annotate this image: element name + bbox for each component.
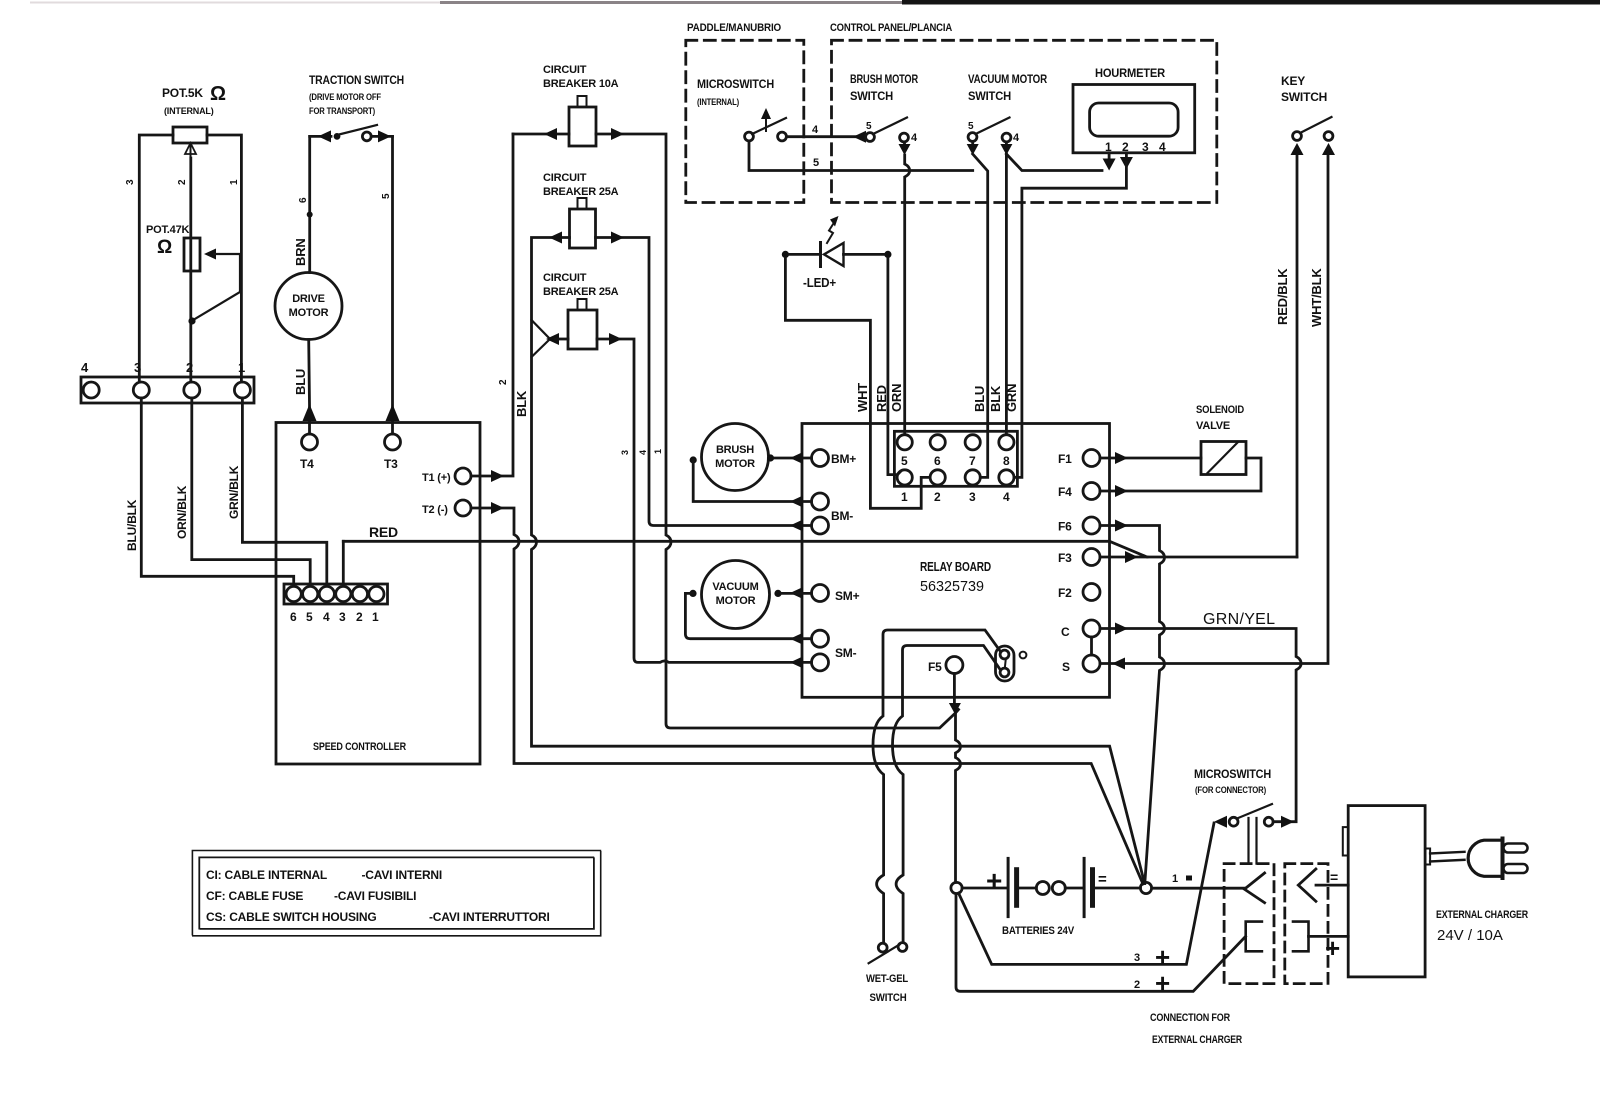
svg-text:MICROSWITCH: MICROSWITCH: [1194, 767, 1271, 781]
microswitch (internal) label: [697, 77, 774, 107]
wire CB10A right: [596, 134, 959, 728]
svg-text:PADDLE/MANUBRIO: PADDLE/MANUBRIO: [687, 22, 782, 34]
svg-text:-CAVI INTERRUTTORI: -CAVI INTERRUTTORI: [429, 910, 550, 924]
svg-text:CIRCUIT: CIRCUIT: [543, 64, 587, 76]
wire CB25A-1 left down to rail H1: [532, 238, 1145, 884]
circuit breaker 25A (upper) label: [543, 172, 619, 198]
svg-text:BRUSH MOTOR: BRUSH MOTOR: [850, 72, 918, 86]
svg-text:KEY: KEY: [1281, 74, 1305, 88]
svg-text:WHT: WHT: [855, 383, 870, 412]
traction switch labels: [309, 73, 404, 116]
svg-text:BREAKER 25A: BREAKER 25A: [543, 286, 619, 298]
circuit breaker 25A upper body: [570, 209, 596, 248]
relay pin F2: [1083, 584, 1100, 601]
svg-text:-CAVI FUSIBILI: -CAVI FUSIBILI: [334, 889, 416, 903]
potentiometer POT.47K body: [184, 238, 200, 271]
svg-text:BLK: BLK: [988, 385, 1003, 412]
svg-text:CIRCUIT: CIRCUIT: [543, 172, 587, 184]
svg-text:-LED+: -LED+: [803, 275, 837, 290]
svg-text:SOLENOID: SOLENOID: [1196, 404, 1244, 416]
svg-text:T2 (-): T2 (-): [422, 504, 448, 516]
svg-text:MOTOR: MOTOR: [289, 307, 329, 319]
svg-text:1: 1: [238, 360, 245, 375]
svg-text:EXTERNAL CHARGER: EXTERNAL CHARGER: [1152, 1034, 1242, 1046]
svg-text:POT.47K: POT.47K: [146, 224, 189, 236]
microswitch internal contacts: [745, 132, 754, 141]
scan artifact: top edge broken line: [30, 0, 1600, 5]
hourmeter label: [1095, 66, 1165, 80]
svg-text:CIRCUIT: CIRCUIT: [543, 272, 587, 284]
wire vacuum sw contact5 down to BLU: [971, 142, 974, 148]
charger minus wire: [1316, 884, 1348, 887]
relay jumper connector: [996, 646, 1015, 681]
vacuum motor: [702, 561, 770, 629]
svg-text:BATTERIES 24V: BATTERIES 24V: [1002, 925, 1075, 937]
svg-text:BLK: BLK: [514, 390, 529, 417]
svg-text:CONTROL PANEL/PLANCIA: CONTROL PANEL/PLANCIA: [830, 22, 952, 34]
circuit breaker 25A lower body: [568, 310, 597, 349]
svg-text:BLU: BLU: [293, 369, 308, 395]
svg-text:(INTERNAL): (INTERNAL): [697, 97, 739, 107]
wire F1 to solenoid valve: [1100, 457, 1201, 460]
relay pin F1: [1083, 450, 1100, 467]
arrow up into T3: [386, 404, 400, 421]
svg-text:SPEED CONTROLLER: SPEED CONTROLLER: [313, 741, 406, 753]
potentiometer POT.5K label: [162, 83, 226, 116]
dashed box paddle: [686, 40, 804, 202]
brush motor: [702, 424, 769, 491]
wire T1 to breaker 10A: [471, 134, 513, 476]
pot47 wiper arrow: [204, 249, 216, 260]
svg-text:CS: CABLE SWITCH HOUSING: CS: CABLE SWITCH HOUSING: [206, 910, 377, 924]
relay pin F5: [928, 660, 942, 674]
terminal T3: [385, 434, 401, 450]
label PADDLE/MANUBRIO: [687, 22, 782, 34]
link C-S: [1090, 637, 1093, 655]
relay pins SM-: [812, 630, 829, 647]
svg-text:CONNECTION FOR: CONNECTION FOR: [1150, 1012, 1230, 1024]
svg-text:(DRIVE MOTOR OFF: (DRIVE MOTOR OFF: [309, 92, 382, 102]
svg-text:MOTOR: MOTOR: [716, 595, 756, 607]
svg-text:CF: CABLE FUSE: CF: CABLE FUSE: [206, 889, 303, 903]
wire solenoid return to F4: [1100, 458, 1261, 491]
svg-text:2: 2: [186, 360, 193, 375]
batteries 24V: [951, 882, 962, 893]
svg-text:BM-: BM-: [831, 509, 853, 523]
svg-text:1: 1: [1172, 873, 1178, 885]
svg-text:4: 4: [323, 610, 330, 624]
svg-text:5: 5: [968, 121, 974, 132]
svg-text:56325739: 56325739: [920, 579, 984, 595]
speed controller box: [276, 423, 480, 765]
svg-text:8: 8: [1003, 454, 1010, 468]
terminal T4: [302, 434, 318, 450]
wire LED anode to relay pin1 (RED): [888, 258, 900, 475]
svg-text:T4: T4: [300, 457, 314, 471]
label RED: [369, 524, 398, 540]
LED lightning arrow: [827, 220, 836, 244]
connector pin arrows: [1244, 873, 1264, 903]
wire pot left leg: [139, 135, 173, 382]
connector dashed housing 2: [1285, 864, 1328, 984]
svg-text:RED: RED: [874, 385, 889, 412]
svg-text:1: 1: [229, 179, 240, 185]
svg-text:GRN: GRN: [1004, 384, 1019, 412]
charger plus wire: [1309, 935, 1349, 938]
drive motor M1: [275, 273, 342, 340]
wire hourmeter pin2 to GRN: [1125, 153, 1128, 158]
svg-text:S: S: [1062, 660, 1070, 674]
wire S to key switch WHT/BLK: [1100, 149, 1328, 664]
mechanical link lines: [1249, 818, 1257, 864]
wire brush motor to BM+: [771, 457, 812, 460]
svg-text:4: 4: [1159, 140, 1166, 154]
svg-text:SM+: SM+: [835, 589, 860, 603]
labels 6 5 4 3 2 1: [290, 610, 379, 624]
svg-text:C: C: [1061, 625, 1070, 639]
svg-text:6: 6: [934, 454, 941, 468]
svg-text:24V / 10A: 24V / 10A: [1437, 927, 1503, 944]
terminal T1(+): [455, 468, 471, 484]
relay pin F4: [1083, 483, 1100, 500]
svg-text:4: 4: [638, 450, 648, 455]
svg-text:6: 6: [298, 197, 309, 203]
svg-text:(INTERNAL): (INTERNAL): [164, 106, 214, 116]
connection for external charger labels: [1150, 1012, 1242, 1046]
wire traction left leg (BRN): [308, 136, 311, 272]
wire battery left to line 2: [956, 894, 1246, 992]
circuit breaker 10A label: [543, 64, 619, 90]
svg-text:FOR TRANSPORT): FOR TRANSPORT): [309, 106, 375, 116]
wire key switch WHT/BLK arrow: [1322, 143, 1335, 155]
wire BLU/BLK pin3 to speed controller pin6: [141, 398, 293, 585]
relay pin F3: [1083, 549, 1100, 566]
label +: [986, 865, 1002, 896]
svg-text:Ω: Ω: [157, 237, 172, 258]
svg-text:BLU/BLK: BLU/BLK: [125, 499, 139, 551]
svg-text:6: 6: [290, 610, 297, 624]
wire GRN/BLK pin1 to speed controller pin4: [242, 398, 326, 585]
svg-text:HOURMETER: HOURMETER: [1095, 66, 1165, 80]
svg-text:2: 2: [177, 179, 188, 185]
key switch: [1293, 132, 1302, 141]
svg-text:3: 3: [1142, 140, 1149, 154]
svg-text:SWITCH: SWITCH: [968, 89, 1011, 103]
wire pot wiper down: [189, 158, 192, 382]
svg-text:RED/BLK: RED/BLK: [1275, 268, 1290, 325]
labels 3 + and 2 +: [1134, 942, 1170, 998]
svg-text:RELAY BOARD: RELAY BOARD: [920, 559, 991, 574]
svg-text:5: 5: [866, 121, 872, 132]
wire pot right leg: [207, 135, 241, 382]
svg-text:5: 5: [306, 610, 313, 624]
hourmeter body: [1073, 85, 1195, 153]
arrow up into T4: [303, 404, 317, 421]
charger cord and plug: [1425, 849, 1430, 865]
svg-text:SWITCH: SWITCH: [850, 89, 893, 103]
svg-text:RED: RED: [369, 524, 398, 540]
legend box: [192, 851, 600, 936]
svg-text:7: 7: [969, 454, 976, 468]
relay pin BM+: [812, 450, 829, 467]
svg-text:3: 3: [1134, 952, 1140, 964]
junction dot: [188, 317, 195, 324]
svg-text:4: 4: [1003, 490, 1010, 504]
vacuum motor switch label: [968, 72, 1047, 103]
svg-text:2: 2: [498, 379, 509, 385]
connector lower contacts: [1246, 922, 1262, 952]
label -LED+: [803, 275, 837, 290]
brush motor switch label: [850, 72, 918, 103]
wire brush sw contact4 down (ORN): [903, 142, 906, 148]
wire battery junction to connector pin 1: [1152, 887, 1245, 890]
svg-text:1: 1: [901, 490, 908, 504]
svg-text:2: 2: [356, 610, 363, 624]
circuit breaker 10A body: [569, 107, 596, 146]
wire Y-join CB25A-2 left: [532, 320, 551, 357]
connector dashed housing 1: [1224, 864, 1274, 984]
svg-text:5: 5: [381, 193, 392, 199]
svg-text:F6: F6: [1058, 520, 1072, 534]
wire microswitch to brush switch (4): [786, 135, 865, 138]
svg-text:DRIVE: DRIVE: [292, 293, 325, 305]
svg-text:WET-GEL: WET-GEL: [866, 973, 908, 985]
svg-text:MICROSWITCH: MICROSWITCH: [697, 77, 774, 91]
wire wet-gel switch to relay trace1: [873, 697, 884, 943]
brush motor switch: [866, 133, 875, 142]
wire CB25A-1 right to BM-: [596, 238, 812, 526]
svg-text:3: 3: [134, 360, 141, 375]
svg-text:2: 2: [934, 490, 941, 504]
relay internal trace 1: [883, 630, 1001, 697]
svg-text:GRN/YEL: GRN/YEL: [1203, 611, 1275, 628]
svg-text:T3: T3: [384, 457, 398, 471]
svg-text:=: =: [1098, 871, 1107, 888]
relay pin F6: [1083, 517, 1100, 534]
svg-text:ORN/BLK: ORN/BLK: [175, 485, 189, 539]
svg-text:BREAKER 25A: BREAKER 25A: [543, 186, 619, 198]
svg-text:5: 5: [901, 454, 908, 468]
pin labels 4 3 2 1: [81, 360, 245, 375]
potentiometer POT.5K body: [173, 127, 207, 143]
svg-text:+: +: [1325, 933, 1340, 963]
svg-text:3: 3: [125, 179, 136, 185]
potentiometer POT.47K label: [146, 224, 189, 258]
svg-text:BLU: BLU: [972, 386, 987, 412]
microswitch (for connector) label: [1194, 767, 1271, 795]
wire hourmeter pin1: [1108, 153, 1111, 160]
svg-text:F4: F4: [1058, 485, 1072, 499]
svg-text:1: 1: [653, 449, 663, 454]
label GRN/YEL: [1203, 611, 1275, 628]
svg-text:VACUUM: VACUUM: [712, 581, 758, 593]
key switch label: [1281, 74, 1327, 104]
svg-text:+: +: [1155, 968, 1170, 998]
wire vacuum motor neg to SM-: [685, 593, 811, 638]
relay board 8-pin connector: [894, 431, 1017, 486]
svg-text:3: 3: [620, 450, 630, 455]
circuit breaker 25A (lower) label: [543, 272, 619, 298]
wire ORN/BLK pin2 to speed controller pin5: [192, 398, 310, 585]
vacuum motor switch: [968, 133, 977, 142]
relay pin C: [1083, 620, 1100, 637]
svg-text:T1 (+): T1 (+): [422, 472, 451, 484]
svg-text:(FOR CONNECTOR): (FOR CONNECTOR): [1195, 785, 1266, 795]
wire F6 down to battery junction: [1100, 526, 1165, 884]
svg-text:ORN: ORN: [889, 384, 904, 412]
svg-text:TRACTION SWITCH: TRACTION SWITCH: [309, 73, 404, 87]
wire wet-gel switch to relay trace2: [893, 697, 904, 942]
svg-text:MOTOR: MOTOR: [715, 458, 755, 470]
wire LED cathode to relay pin2 (WHT): [785, 258, 930, 508]
svg-text:EXTERNAL CHARGER: EXTERNAL CHARGER: [1436, 909, 1528, 921]
wire traction right leg: [391, 136, 394, 434]
external charger labels: [1436, 909, 1528, 944]
relay pin S: [1083, 655, 1100, 672]
svg-text:F2: F2: [1058, 586, 1072, 600]
svg-text:=: =: [1330, 869, 1338, 885]
svg-text:5: 5: [813, 157, 819, 169]
svg-text:BREAKER 10A: BREAKER 10A: [543, 78, 619, 90]
wire CB25A-2 right to SM-: [597, 339, 812, 662]
svg-text:CI: CABLE INTERNAL: CI: CABLE INTERNAL: [206, 868, 327, 882]
svg-text:SWITCH: SWITCH: [1281, 90, 1327, 104]
microswitch for connector: [1229, 817, 1238, 826]
dashed box control panel: [832, 40, 1217, 202]
svg-text:POT.5K: POT.5K: [162, 86, 203, 100]
svg-text:4: 4: [81, 360, 89, 375]
svg-text:F3: F3: [1058, 551, 1072, 565]
svg-text:Ω: Ω: [210, 83, 226, 105]
svg-text:1: 1: [372, 610, 379, 624]
wire drive motor to T4 (BLU): [307, 340, 311, 435]
label minus: [1098, 871, 1107, 888]
svg-text:F5: F5: [928, 660, 942, 674]
LED indicator: [782, 251, 789, 258]
actuator arrow up: [765, 114, 767, 131]
wet-gel switch: [878, 943, 887, 952]
wire C to charger microswitch: [1100, 629, 1301, 822]
svg-text:2: 2: [1134, 979, 1140, 991]
svg-text:WHT/BLK: WHT/BLK: [1309, 268, 1324, 327]
svg-text:3: 3: [969, 490, 976, 504]
wire RED rail from pin3 across relay board: [342, 541, 345, 586]
svg-text:+: +: [986, 865, 1002, 896]
wire microswitch common down and right (5): [749, 141, 973, 171]
wire vacuum sw contact4 down (BLK) and to hourmeter: [1005, 142, 1008, 148]
relay pin SM+: [812, 585, 829, 602]
svg-text:VACUUM MOTOR: VACUUM MOTOR: [968, 72, 1047, 86]
wire T2 down to battery minus rail: [471, 508, 1143, 884]
svg-text:BRN: BRN: [293, 238, 308, 266]
terminal T2(-): [455, 500, 471, 516]
traction switch: [310, 135, 331, 138]
relay board 56325739: [802, 424, 1110, 698]
svg-text:F1: F1: [1058, 452, 1072, 466]
external charger box: [1348, 806, 1425, 977]
connector block 4-pin: [81, 377, 254, 403]
solenoid valve: [1196, 404, 1244, 432]
relay internal trace 2: [903, 646, 1000, 698]
pot wiper arrow: [190, 146, 192, 158]
wire battery left to line 3: [959, 823, 1215, 964]
wire key switch RED/BLK to F3: [1296, 152, 1299, 557]
svg-text:SWITCH: SWITCH: [870, 992, 907, 1004]
svg-text:GRN/BLK: GRN/BLK: [227, 465, 241, 519]
svg-text:-CAVI INTERNI: -CAVI INTERNI: [362, 868, 443, 882]
label CONTROL PANEL/PLANCIA: [830, 22, 952, 34]
wire CB10A left: [513, 133, 569, 136]
wire F5 switch to battery: [953, 674, 956, 703]
speed controller 6-pin connector: [284, 584, 388, 604]
svg-text:BRUSH: BRUSH: [716, 444, 754, 456]
wire brush motor neg to BM-: [693, 460, 811, 502]
svg-text:BM+: BM+: [831, 452, 856, 466]
svg-text:3: 3: [339, 610, 346, 624]
relay pins BM-: [812, 493, 829, 510]
svg-text:VALVE: VALVE: [1196, 420, 1230, 432]
wire vacuum motor pos to SM+: [782, 592, 812, 595]
svg-text:SM-: SM-: [835, 646, 857, 660]
